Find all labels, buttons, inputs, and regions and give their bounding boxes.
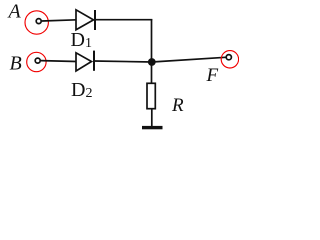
diode D2 — [76, 51, 94, 71]
junction node (D1/D2/R/F) — [148, 58, 156, 66]
resistor R — [147, 83, 155, 108]
wire D2 cathode to node — [94, 61, 152, 62]
input terminal B — [27, 52, 46, 71]
wire node down to resistor R — [151, 62, 153, 84]
diode D1 — [76, 10, 95, 30]
svg-text:F: F — [206, 65, 219, 86]
svg-text:A: A — [7, 0, 22, 22]
wire node to output terminal F — [152, 57, 226, 62]
wire resistor to ground — [151, 109, 153, 127]
svg-text:D2: D2 — [71, 79, 92, 101]
wire corner down to node — [151, 19, 153, 62]
wire B terminal to D2 anode — [41, 60, 77, 63]
svg-text:B: B — [10, 52, 22, 74]
input terminal A — [25, 11, 48, 34]
svg-text:R: R — [171, 95, 184, 116]
ground — [142, 126, 163, 129]
svg-text:D1: D1 — [71, 29, 92, 51]
wire A terminal to D1 anode — [42, 20, 77, 21]
wire D1 cathode to corner — [95, 19, 152, 21]
output terminal F — [221, 51, 238, 68]
